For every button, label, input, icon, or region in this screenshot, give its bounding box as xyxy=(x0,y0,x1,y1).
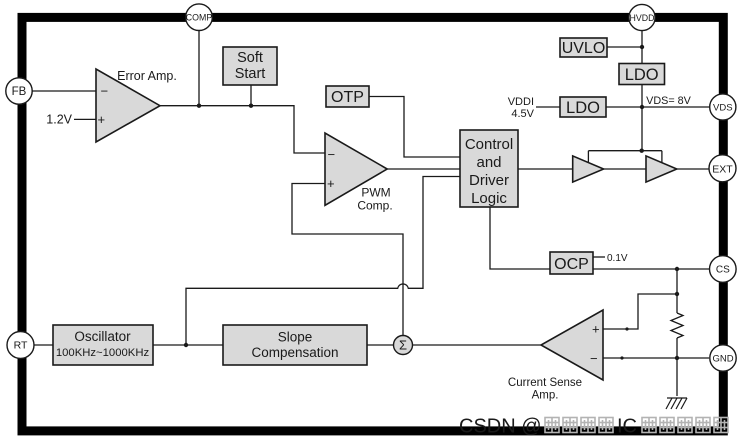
svg-text:+: + xyxy=(98,112,106,127)
svg-text:CS: CS xyxy=(716,265,730,276)
svg-text:FB: FB xyxy=(12,86,27,98)
summer sigma node xyxy=(394,336,413,355)
wire control logic to OCP xyxy=(490,207,550,269)
wire error amp output to PWM comparator inverting input xyxy=(160,106,325,153)
pin VDS xyxy=(710,94,736,120)
pin RT xyxy=(7,332,34,359)
wire 1.2V stub to error amp non-inverting input xyxy=(74,118,96,120)
svg-text:Soft: Soft xyxy=(237,50,263,66)
svg-text:Error Amp.: Error Amp. xyxy=(117,69,177,83)
svg-text:LDO: LDO xyxy=(566,99,600,117)
wire Soft Start drop to error amp output net xyxy=(250,85,252,106)
wire VDS net to VDS pin xyxy=(642,106,710,108)
svg-text:100KHz~1000KHz: 100KHz~1000KHz xyxy=(56,347,150,359)
pin HVDD xyxy=(629,4,655,30)
resistor R sense xyxy=(671,313,683,338)
wire oscillator to control logic with hop over summer wire xyxy=(186,177,460,346)
svg-text:Start: Start xyxy=(235,66,266,82)
svg-text:Control: Control xyxy=(465,136,513,153)
block Soft Start xyxy=(223,47,277,85)
svg-text:RT: RT xyxy=(14,340,28,352)
svg-text:Comp.: Comp. xyxy=(357,199,392,213)
buffer driver 1 xyxy=(573,156,604,182)
svg-text:Driver: Driver xyxy=(469,172,509,189)
wire CS net down to sense resistor xyxy=(676,269,678,313)
svg-text:1.2V: 1.2V xyxy=(46,113,72,127)
block UVLO xyxy=(560,38,607,57)
block Control and Driver Logic xyxy=(460,130,518,207)
svg-text:VDS= 8V: VDS= 8V xyxy=(646,95,692,107)
wire OCP to CS pin xyxy=(593,268,710,270)
svg-text:+: + xyxy=(592,322,600,337)
svg-text:0.1V: 0.1V xyxy=(607,253,628,264)
junction driver supply rail xyxy=(640,149,644,153)
wire resistor bottom to GND net and ground xyxy=(676,338,678,396)
svg-text:Σ: Σ xyxy=(399,338,407,353)
wire PWM comparator output to control logic xyxy=(387,168,460,170)
svg-text:+: + xyxy=(327,176,335,191)
junction Soft Start net xyxy=(249,104,253,108)
junction GND net xyxy=(675,356,679,360)
wire summer to current sense amp output xyxy=(413,344,542,346)
junction on minus input wire xyxy=(620,356,623,359)
junction UVLO tap xyxy=(640,45,644,49)
wire driver buffer 1 to driver buffer 2 xyxy=(604,168,646,170)
svg-text:−: − xyxy=(101,83,109,98)
svg-text:UVLO: UVLO xyxy=(562,40,606,57)
block OTP xyxy=(326,86,369,107)
svg-text:GND: GND xyxy=(712,354,733,365)
wire driver buffer 2 to EXT pin xyxy=(677,168,709,170)
op-amp Error Amp xyxy=(96,69,160,142)
block LDO lower xyxy=(560,97,606,117)
svg-text:−: − xyxy=(328,147,336,162)
wire RT pin to oscillator xyxy=(34,344,53,346)
junction VDS net xyxy=(640,105,644,109)
junction on COMP net xyxy=(197,104,201,108)
block LDO upper xyxy=(619,64,665,85)
pin FB xyxy=(6,78,32,104)
wire control logic to first driver buffer xyxy=(518,168,573,170)
block OCP xyxy=(550,252,593,274)
svg-text:−: − xyxy=(590,351,598,366)
svg-text:EXT: EXT xyxy=(712,163,733,175)
svg-text:VDDI: VDDI xyxy=(508,96,534,108)
svg-text:HVDD: HVDD xyxy=(630,13,655,23)
svg-text:Compensation: Compensation xyxy=(251,345,338,360)
pin EXT xyxy=(709,155,736,182)
svg-text:COMP: COMP xyxy=(186,13,213,23)
comparator PWM Comp xyxy=(325,133,387,205)
svg-text:OTP: OTP xyxy=(331,89,364,106)
svg-text:CSDN @: CSDN @ xyxy=(459,416,542,438)
pin COMP xyxy=(186,4,213,31)
pin CS xyxy=(710,256,737,283)
junction on plus input wire xyxy=(625,327,628,330)
svg-text:Amp.: Amp. xyxy=(532,390,559,402)
svg-text:Slope: Slope xyxy=(278,330,313,345)
wire UVLO to HVDD net xyxy=(607,46,642,48)
wire VDDI stub into second LDO xyxy=(536,106,560,108)
wire slope compensation to summer xyxy=(367,344,394,346)
wire driver supply rail xyxy=(588,151,662,163)
ground xyxy=(666,398,687,409)
svg-text:and: and xyxy=(476,154,501,171)
svg-text:PWM: PWM xyxy=(361,186,390,200)
junction oscillator output xyxy=(184,343,188,347)
wire current sense amp inverting input to GND pin xyxy=(603,357,709,359)
svg-text:OCP: OCP xyxy=(554,256,589,273)
pin GND xyxy=(710,345,736,371)
svg-text:Oscillator: Oscillator xyxy=(74,329,131,344)
watermark xyxy=(459,416,728,438)
svg-text:Current Sense: Current Sense xyxy=(508,377,582,389)
block Oscillator xyxy=(53,325,153,365)
svg-text:VDS: VDS xyxy=(713,103,733,114)
buffer driver 2 xyxy=(646,156,677,182)
op-amp Current Sense Amp xyxy=(541,310,603,380)
wire PWM comparator non-inverting input to summer output xyxy=(292,184,403,336)
block Slope Compensation xyxy=(223,325,367,365)
svg-text:Logic: Logic xyxy=(471,190,507,207)
svg-text:4.5V: 4.5V xyxy=(511,108,534,120)
svg-text:IC: IC xyxy=(617,416,637,438)
wire sense tap to current sense amp non-inverting input xyxy=(603,294,677,329)
wire second LDO output to VDS net xyxy=(606,106,642,108)
wire FB to error amp inverting input xyxy=(32,90,96,92)
wire oscillator to slope compensation xyxy=(153,344,223,346)
junction CS net xyxy=(675,267,679,271)
svg-text:LDO: LDO xyxy=(625,66,659,84)
wire COMP pin drop to error amp output net xyxy=(198,30,200,106)
wire OCP 0.1V reference stub xyxy=(593,256,605,258)
wire HVDD pin down through LDO chain xyxy=(641,31,643,151)
junction sense top tap xyxy=(675,292,679,296)
wire OTP output to control logic xyxy=(369,97,460,158)
